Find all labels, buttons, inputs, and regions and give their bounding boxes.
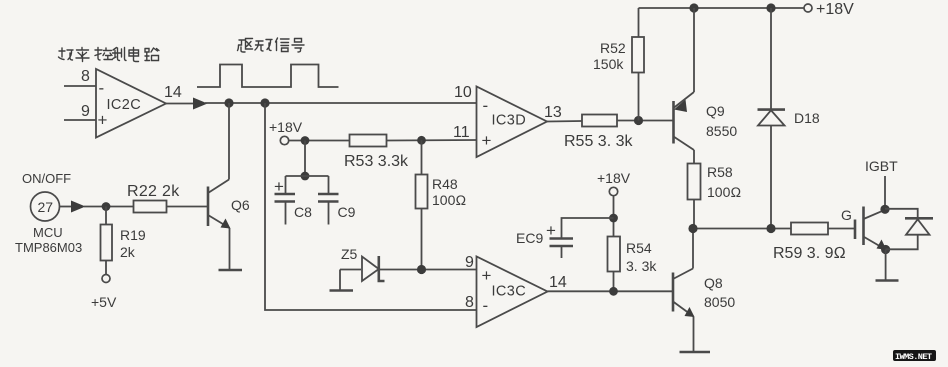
op-amp IC3C xyxy=(477,257,548,328)
svg-text:11: 11 xyxy=(453,124,470,141)
svg-text:R22 2k: R22 2k xyxy=(127,183,180,200)
ground Z5 xyxy=(330,289,354,292)
svg-text:14: 14 xyxy=(164,84,182,101)
wire R22 to Q6 base xyxy=(167,206,208,208)
wire Q8 collector up xyxy=(692,229,694,269)
svg-text:+: + xyxy=(482,131,492,150)
svg-text:Q8: Q8 xyxy=(704,275,723,291)
wire EC9 branch xyxy=(562,218,614,238)
op-amp IC3D xyxy=(477,87,548,158)
svg-text:9: 9 xyxy=(465,254,474,271)
svg-text:-: - xyxy=(99,79,105,98)
arrow on MCU output xyxy=(71,201,86,213)
svg-text:IC3D: IC3D xyxy=(492,113,527,129)
svg-text:10: 10 xyxy=(454,84,472,101)
svg-text:8550: 8550 xyxy=(706,123,737,139)
svg-text:-: - xyxy=(483,96,489,115)
svg-text:+: + xyxy=(546,221,556,240)
wire MCU to arrow xyxy=(60,206,73,208)
drive signal square waveform xyxy=(197,65,339,88)
svg-text:2k: 2k xyxy=(120,244,136,260)
node junction MCU/R19 xyxy=(102,202,111,211)
resistor R53 xyxy=(350,135,387,147)
svg-text:D18: D18 xyxy=(794,110,820,126)
node junction IGBT collector/diode xyxy=(880,205,889,214)
node junction Z5/R48/IC3C pin 9 xyxy=(417,265,426,274)
svg-text:+: + xyxy=(98,111,108,130)
svg-text:+18V: +18V xyxy=(269,119,303,135)
svg-text:R53 3.3k: R53 3.3k xyxy=(344,153,409,170)
svg-text:14: 14 xyxy=(549,274,567,291)
wire Q9 emitter to rail xyxy=(693,8,695,92)
svg-text:EC9: EC9 xyxy=(516,230,543,246)
wire drive signal bus to IC3D pin 10 xyxy=(205,102,477,104)
svg-text:IC3C: IC3C xyxy=(492,284,527,300)
IGBT symbol xyxy=(855,207,887,250)
node junction Q8 collector/R58 xyxy=(688,224,697,233)
resistor R54 xyxy=(608,237,621,272)
svg-text:IGBT: IGBT xyxy=(865,158,898,174)
wire junction to R19 xyxy=(105,207,107,225)
svg-text:C9: C9 xyxy=(338,204,356,220)
ground Q6 xyxy=(219,269,243,272)
svg-text:G: G xyxy=(841,207,852,223)
wire Q6 collector to drive bus xyxy=(228,103,230,180)
svg-text:R19: R19 xyxy=(120,227,146,243)
terminal +18V right xyxy=(804,4,812,12)
svg-text:R55 3. 3k: R55 3. 3k xyxy=(564,133,633,150)
ground Q8 xyxy=(680,351,711,354)
svg-text:9: 9 xyxy=(81,103,90,120)
wire IC2C pin 8 input xyxy=(64,85,96,87)
node junction drive/Q6 collector xyxy=(224,98,233,107)
wire IGBT emitter to ground xyxy=(885,250,887,280)
svg-text:8: 8 xyxy=(465,294,474,311)
wire R53 to IC3D pin 11 xyxy=(387,139,477,142)
wire R59 to IGBT gate xyxy=(828,228,855,230)
node junction IGBT emitter/diode xyxy=(881,245,890,254)
svg-text:+: + xyxy=(274,177,284,196)
resistor R52 xyxy=(632,37,644,73)
svg-text:3. 3k: 3. 3k xyxy=(626,258,657,274)
resistor R19 xyxy=(101,225,113,261)
svg-text:100Ω: 100Ω xyxy=(707,184,741,200)
node junction R52/R55/Q9 base xyxy=(634,116,643,125)
wire R54 to IC3C output line xyxy=(613,272,615,292)
wire junction to R48 xyxy=(421,140,423,174)
wire IC3D output to R55 xyxy=(547,120,582,123)
wire Z5 anode to ground xyxy=(339,270,341,291)
capacitor C9 xyxy=(318,176,339,225)
svg-text:+: + xyxy=(482,266,492,285)
label 功率控制电路 (power control circuit), hand-drawn glyphs xyxy=(59,48,160,62)
svg-text:R52: R52 xyxy=(600,40,626,56)
resistor R48 xyxy=(416,175,428,209)
wire drive branch down to IC3C pin 8 xyxy=(265,103,477,310)
wire freewheel diode top link xyxy=(885,209,918,218)
svg-text:IC2C: IC2C xyxy=(107,97,142,113)
terminal +18V left xyxy=(280,136,288,144)
node junction rail/D18 xyxy=(766,3,775,12)
svg-text:Q6: Q6 xyxy=(231,197,250,213)
svg-text:8: 8 xyxy=(81,68,90,85)
svg-text:Z5: Z5 xyxy=(341,246,358,262)
wire C8/C9 top rail xyxy=(286,175,329,177)
wire arrow to R22 xyxy=(84,206,134,208)
wire +18V to R53 xyxy=(289,140,350,142)
resistor R22 xyxy=(134,201,167,213)
MCU output port circle node 27 xyxy=(31,192,60,221)
wire D18 anode lead xyxy=(770,126,772,229)
wire IC2C pin 9 input xyxy=(64,119,96,121)
wire down to C8/C9 rail xyxy=(304,141,306,177)
svg-text:+18V: +18V xyxy=(597,170,631,186)
svg-text:IWMS.NET: IWMS.NET xyxy=(895,352,932,362)
svg-text:+18V: +18V xyxy=(816,1,854,18)
node junction C8/C9 rail xyxy=(301,172,310,181)
svg-text:27: 27 xyxy=(38,199,54,215)
wire IGBT collector up xyxy=(884,176,886,210)
svg-text:MCU: MCU xyxy=(33,225,63,240)
wire IC2C output xyxy=(166,103,194,105)
wire R19 to +5V terminal xyxy=(105,261,107,275)
resistor R55 xyxy=(582,115,617,127)
node junction EC9 branch xyxy=(609,214,618,223)
wire freewheel diode bottom link xyxy=(886,235,918,250)
wire +18V top rail xyxy=(639,7,805,9)
arrow on drive signal wire xyxy=(193,98,208,110)
node junction rail/Q9 emitter xyxy=(689,3,698,12)
svg-text:R48: R48 xyxy=(432,176,458,192)
svg-text:R54: R54 xyxy=(626,240,652,256)
op-amp IC2C xyxy=(96,69,166,138)
transistor Q9 (PNP 8550) xyxy=(674,92,695,150)
wire D18 cathode lead xyxy=(770,8,772,109)
wire R55 to Q9 base xyxy=(617,120,673,122)
node junction R54/IC3C output xyxy=(609,287,618,296)
watermark IWMS.NET xyxy=(893,350,936,362)
wire IC3C output to Q8 base xyxy=(548,290,673,292)
freewheel diode across IGBT xyxy=(905,218,933,234)
node junction drive/IC3C pin 8 branch xyxy=(260,98,269,107)
wire Q9 collector to R58 xyxy=(693,150,695,164)
svg-text:ON/OFF: ON/OFF xyxy=(22,171,71,186)
svg-text:TMP86M03: TMP86M03 xyxy=(15,240,82,255)
node junction +18V/C8 C9 branch xyxy=(301,136,310,145)
terminal +18V mid xyxy=(609,187,617,195)
capacitor EC9 (electrolytic) xyxy=(550,239,574,259)
svg-text:R59 3. 9Ω: R59 3. 9Ω xyxy=(773,245,846,262)
label 驱动信号 (drive signal), hand-drawn glyphs xyxy=(238,38,305,52)
svg-text:Q9: Q9 xyxy=(706,103,725,119)
wire +18V mid down to R54 xyxy=(613,196,615,237)
svg-text:13: 13 xyxy=(544,104,562,121)
ground IGBT xyxy=(876,279,899,282)
zener diode Z5 xyxy=(340,256,477,281)
wire gate line Q8/D18/R59 xyxy=(693,228,791,230)
node junction D18/gate line xyxy=(766,224,775,233)
wire R52 bottom lead xyxy=(638,73,640,121)
terminal +5V xyxy=(102,275,110,283)
svg-text:8050: 8050 xyxy=(704,294,735,310)
wire Q6 emitter down xyxy=(229,228,231,269)
svg-text:150k: 150k xyxy=(593,56,624,72)
capacitor C8 (electrolytic) xyxy=(275,176,296,225)
wire Q8 emitter down xyxy=(693,317,695,352)
transistor Q8 (NPN 8050) xyxy=(673,269,695,318)
wire R48 to Z5 line xyxy=(421,209,423,270)
svg-text:100Ω: 100Ω xyxy=(432,192,466,208)
diode D18 xyxy=(758,110,786,126)
svg-text:-: - xyxy=(483,296,489,315)
wire R58 to base line xyxy=(693,200,695,229)
wire R52 top lead xyxy=(638,8,640,37)
transistor Q6 (NPN) xyxy=(208,180,231,229)
resistor R58 xyxy=(688,164,701,200)
svg-text:+5V: +5V xyxy=(91,294,117,310)
svg-text:C8: C8 xyxy=(294,204,312,220)
node junction R53/R48 xyxy=(417,136,426,145)
svg-text:R58: R58 xyxy=(707,164,733,180)
resistor R59 xyxy=(791,223,828,235)
